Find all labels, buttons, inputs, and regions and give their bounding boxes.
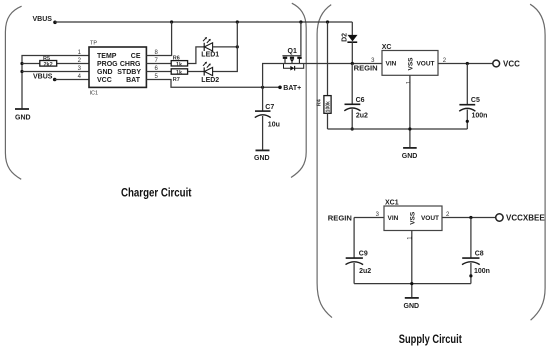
svg-text:VIN: VIN [386,61,397,68]
junction C6 rail [351,127,354,130]
ground GND supply bottom [404,298,420,310]
junction C8 top [469,216,472,219]
IC XC1 regulator [384,200,442,231]
ground GND supply top [402,148,418,160]
svg-text:VBUS: VBUS [33,73,53,80]
transistor Q1 [282,22,303,71]
svg-text:C9: C9 [359,251,368,258]
wire Q1 drain to BAT+ [263,64,382,88]
junction R5 left [20,62,23,65]
wire XC vss pin1 [409,75,411,148]
wire left ground bus [22,56,89,110]
capacitor C8 [462,218,490,284]
svg-text:2k2: 2k2 [44,62,53,68]
frame bracket left supply [317,5,332,318]
resistor R5 [22,56,89,68]
svg-text:VOUT: VOUT [421,215,439,222]
wire XC1 vss pin1 [411,231,413,298]
wire XC1 vout pin2 [442,217,496,219]
frame bracket right supply [530,4,545,320]
svg-text:Charger Circuit: Charger Circuit [121,185,192,199]
svg-text:100k: 100k [326,101,332,112]
svg-text:PROG: PROG [97,61,118,68]
svg-text:XC1: XC1 [385,200,399,207]
ground GND C7 [254,150,270,161]
svg-text:XC: XC [382,44,392,51]
wire LED rail vertical [213,22,238,72]
svg-text:CE: CE [131,53,141,60]
svg-text:LED2: LED2 [201,77,219,84]
svg-text:VCC: VCC [503,59,520,68]
terminal VCC [493,59,520,68]
svg-text:C6: C6 [356,97,365,104]
svg-text:R5: R5 [43,56,50,62]
resistor R6 [146,56,187,68]
IC XC regulator [382,44,438,75]
wire CE pin8 to VBUS [146,22,171,56]
resistor R4 [317,22,332,129]
capacitor C7 [255,87,280,150]
junction CE pullup at VBUS [170,20,173,23]
junction LED1 anode [236,45,239,48]
junction C7 top [261,86,264,89]
LED LED2 [201,62,219,84]
svg-text:STDBY: STDBY [117,69,141,76]
svg-text:VSS: VSS [408,57,415,71]
svg-text:VCC: VCC [97,77,112,84]
LED LED1 [201,37,219,59]
junction C5 lead [466,120,469,123]
svg-text:10u: 10u [268,122,280,129]
wire BAT pin5 [146,80,280,88]
svg-text:VIN: VIN [388,215,399,222]
svg-text:TP: TP [90,41,97,47]
wire VBUS rail [55,21,352,23]
svg-text:Q1: Q1 [288,48,297,55]
wire XC vout pin2 [438,63,493,65]
svg-text:BAT+: BAT+ [283,85,301,92]
diode D2 [342,22,358,64]
svg-text:1k: 1k [176,70,183,76]
wire supply bottom rail [354,283,471,285]
wire pin3 [22,71,89,73]
wire REGIN to XC1 [354,217,384,219]
node BAT+ [278,85,301,92]
frame bracket left charger [5,6,21,179]
IC IC1 TP4054 [89,41,146,97]
svg-text:REGIN: REGIN [354,64,378,73]
svg-text:R4: R4 [317,98,323,106]
wire supply top rail [328,128,468,130]
junction LED anode rail at VBUS [236,20,239,23]
svg-text:GND: GND [404,303,420,310]
svg-text:IC1: IC1 [90,91,99,97]
ground GND charger left [15,109,31,122]
wire R6 to LED1 [188,47,205,64]
svg-text:CHRG: CHRG [120,61,141,68]
svg-text:VSS: VSS [410,211,417,225]
svg-text:GND: GND [15,115,31,122]
capacitor C6 [344,64,368,130]
svg-text:R6: R6 [173,56,180,62]
junction Q1 gate at VBUS [299,20,302,23]
svg-text:100n: 100n [474,268,490,275]
junction C8 lead [469,274,472,277]
junction VSS1 rail [410,282,413,285]
node VBUS pin4 label [33,73,89,81]
svg-text:VBUS: VBUS [33,16,53,23]
capacitor C9 [346,218,372,284]
svg-text:VOUT: VOUT [416,61,434,68]
resistor R7 [146,69,187,83]
svg-text:GND: GND [97,69,113,76]
svg-text:C7: C7 [265,104,274,111]
svg-text:1k: 1k [176,62,183,68]
terminal VCCXBEE [496,213,546,222]
svg-text:C5: C5 [471,97,480,104]
wire LED1 anode [213,46,238,48]
frame bracket right charger [291,3,306,177]
svg-text:GND: GND [402,153,418,160]
svg-text:VCCXBEE: VCCXBEE [506,213,545,222]
svg-text:2u2: 2u2 [359,268,371,275]
junction R4 at VBUS [326,20,329,23]
svg-text:R7: R7 [173,77,180,83]
svg-text:100n: 100n [472,113,488,120]
svg-text:LED1: LED1 [201,52,219,59]
junction D2 REGIN [351,62,354,65]
svg-text:REGIN: REGIN [328,213,352,222]
junction pin3 left [20,70,23,73]
junction VSS rail [408,127,411,130]
svg-text:BAT: BAT [126,77,141,84]
svg-text:Supply Circuit: Supply Circuit [399,332,462,346]
svg-text:TEMP: TEMP [97,53,117,60]
node VBUS top label [33,16,57,24]
svg-text:C8: C8 [475,251,484,258]
svg-text:2u2: 2u2 [356,113,368,120]
svg-text:GND: GND [254,155,270,162]
junction C5 top [466,62,469,65]
svg-text:D2: D2 [342,33,349,42]
wire R7 to LED2 [188,71,205,73]
capacitor C5 [459,64,487,130]
